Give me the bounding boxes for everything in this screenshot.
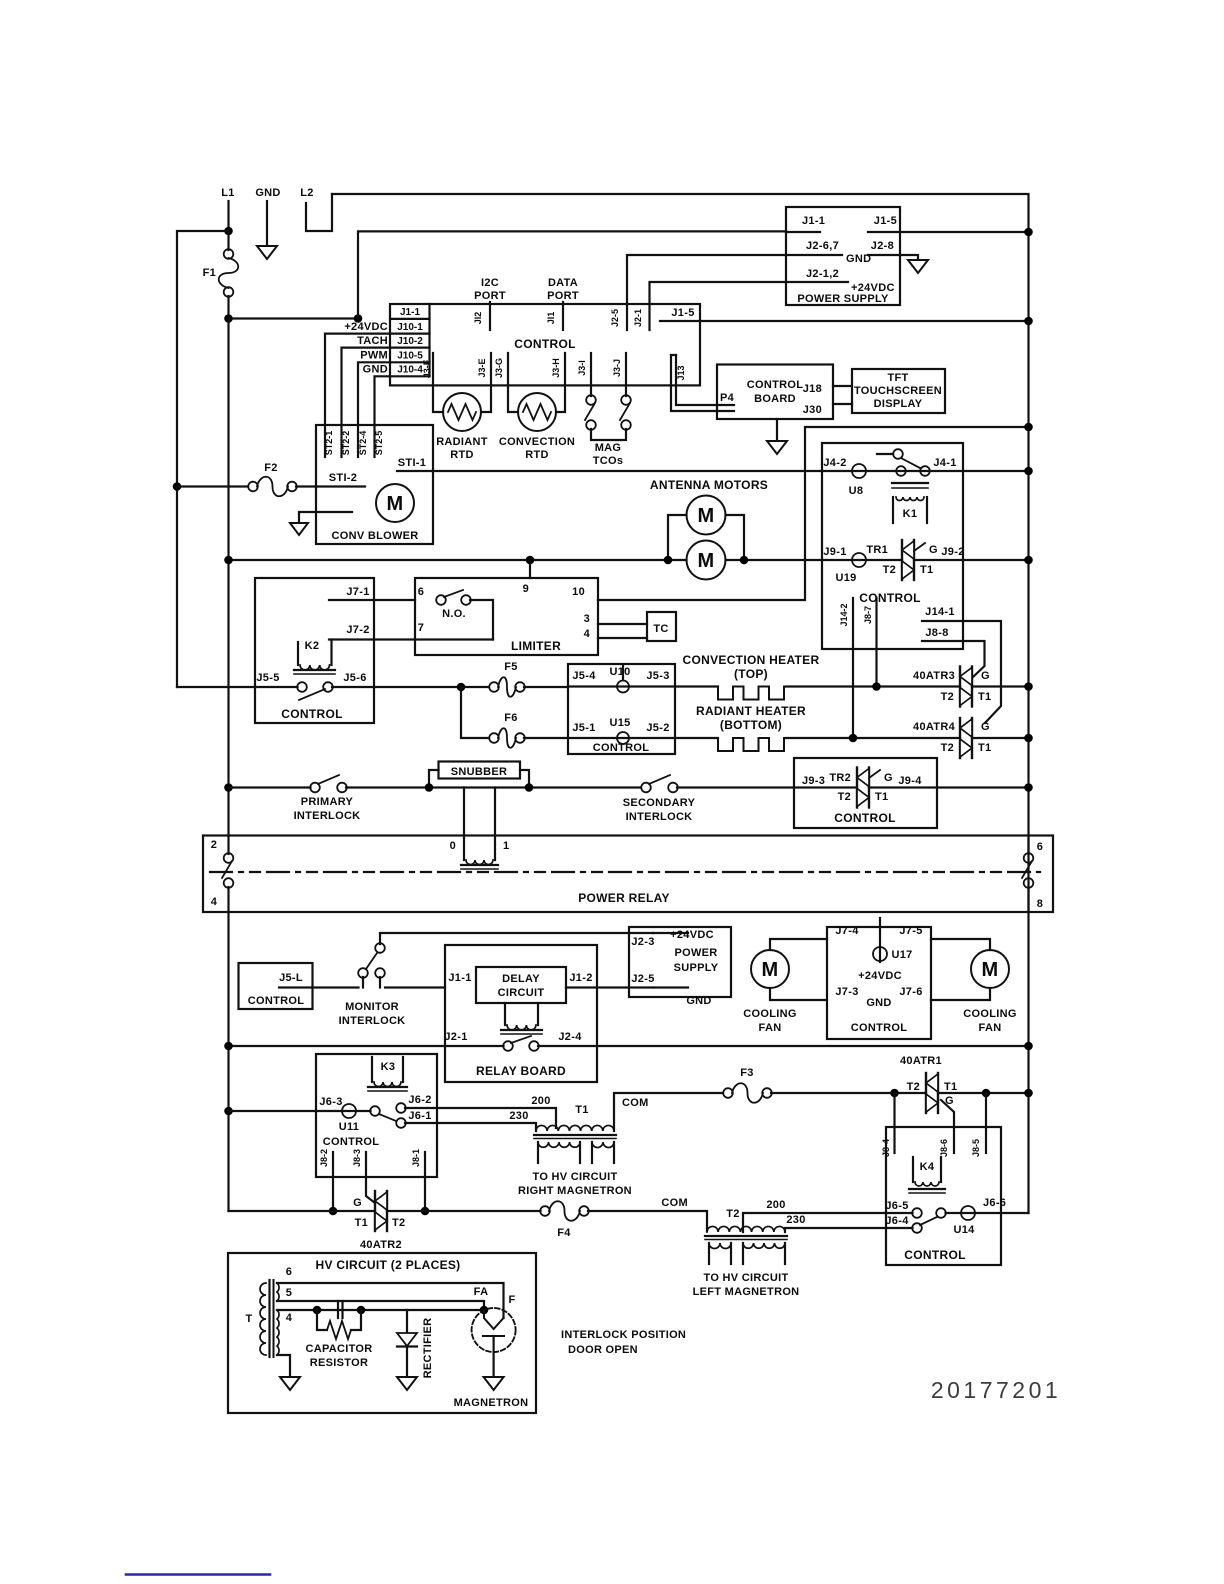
relay coil K4 — [912, 1157, 914, 1182]
control box U17 — [827, 927, 931, 1039]
svg-text:CONTROL: CONTROL — [281, 707, 342, 721]
wire L1 lower vertical — [227, 912, 229, 1211]
svg-text:G: G — [353, 1197, 362, 1209]
wire J6-3 row — [229, 1110, 343, 1112]
junction motors left — [664, 556, 673, 565]
wire J8-3 drop to gate — [366, 1152, 375, 1203]
svg-text:CONTROL: CONTROL — [323, 1136, 379, 1148]
junction row560/pin9 — [526, 556, 535, 565]
svg-text:J1-1: J1-1 — [802, 215, 825, 227]
relay contact K1 switch — [877, 453, 893, 455]
circle U19 — [852, 553, 866, 567]
svg-text:SECONDARY: SECONDARY — [623, 797, 696, 809]
svg-text:J6-4: J6-4 — [885, 1215, 909, 1227]
svg-text:J10-1: J10-1 — [397, 322, 423, 333]
svg-text:CAPACITOR: CAPACITOR — [305, 1343, 372, 1355]
svg-text:10: 10 — [572, 586, 585, 598]
motor antenna 2 — [687, 541, 726, 580]
ground symbol PS1 — [900, 255, 918, 260]
svg-text:GND: GND — [363, 364, 388, 376]
ground symbol rectifier — [397, 1377, 417, 1390]
svg-text:ANTENNA MOTORS: ANTENNA MOTORS — [650, 478, 768, 492]
svg-text:PORT: PORT — [547, 290, 579, 302]
junction J8-5 node — [982, 1089, 991, 1098]
svg-text:INTERLOCK: INTERLOCK — [339, 1015, 406, 1027]
wire fan2 bottom — [931, 988, 990, 1000]
svg-text:T2: T2 — [941, 742, 954, 754]
svg-text:U10: U10 — [609, 666, 630, 678]
svg-text:INTERLOCK: INTERLOCK — [626, 811, 693, 823]
svg-text:MONITOR: MONITOR — [345, 1001, 399, 1013]
wire fan1 top — [770, 939, 827, 950]
svg-text:T1: T1 — [875, 791, 888, 803]
wire antenna bracket right — [726, 515, 745, 560]
svg-text:CONVECTION: CONVECTION — [499, 436, 575, 448]
wire HV 6 to magnetron F — [277, 1283, 504, 1318]
relay board box — [445, 945, 597, 1082]
svg-text:J3-E: J3-E — [477, 358, 487, 377]
wire fan2 top — [931, 939, 990, 950]
svg-text:J8-2: J8-2 — [319, 1149, 329, 1167]
wire J8-5 drop — [985, 1093, 987, 1153]
capacitor HV — [337, 1301, 339, 1318]
wire L2 top rail to right bus — [332, 194, 1029, 1213]
svg-text:J1-1: J1-1 — [400, 307, 420, 318]
relay coil K3 — [371, 1057, 373, 1082]
wire bottom rail mid — [387, 1210, 541, 1212]
svg-text:DATA: DATA — [548, 277, 578, 289]
wire +24VDC feed to control J1-1 — [229, 317, 359, 319]
ground symbol blower — [299, 512, 352, 523]
svg-text:7: 7 — [418, 622, 424, 634]
junction cap right — [357, 1306, 366, 1315]
svg-text:0: 0 — [450, 840, 456, 852]
wire HV 4 row — [277, 1309, 484, 1311]
switch U14 contacts — [886, 1212, 913, 1214]
circle U14 — [946, 1212, 1029, 1214]
wire J8-8 to 40ATR3 gate — [922, 641, 985, 677]
svg-text:I2C: I2C — [481, 277, 499, 289]
junction bus/control J1-5 — [1024, 317, 1033, 326]
svg-text:MAG: MAG — [595, 442, 622, 454]
svg-text:+24VDC: +24VDC — [851, 282, 895, 294]
svg-text:T1: T1 — [944, 1081, 957, 1093]
svg-text:ST2-1: ST2-1 — [324, 431, 334, 456]
junction J8-4 node — [890, 1089, 899, 1098]
svg-text:U11: U11 — [339, 1121, 359, 1133]
svg-text:J5-4: J5-4 — [572, 670, 596, 682]
control box J5-L — [239, 963, 313, 1009]
circle U11 — [342, 1104, 356, 1118]
svg-text:F6: F6 — [504, 712, 517, 724]
TFT touchscreen display box — [852, 369, 945, 413]
svg-text:U14: U14 — [953, 1224, 975, 1236]
svg-text:U8: U8 — [849, 485, 864, 497]
svg-text:P4: P4 — [720, 392, 735, 404]
svg-text:+24VDC: +24VDC — [670, 929, 714, 941]
junction bus/conv row — [1024, 682, 1033, 691]
motor cooling fan right — [971, 950, 1009, 988]
svg-text:J8-8: J8-8 — [925, 627, 948, 639]
svg-text:J2-6,7: J2-6,7 — [806, 240, 839, 252]
svg-text:J2-3: J2-3 — [631, 936, 654, 948]
svg-text:J1-2: J1-2 — [569, 972, 592, 984]
svg-text:M: M — [698, 505, 715, 527]
wire J8-7 drop — [875, 598, 877, 687]
wire J8-2 drop — [332, 1152, 334, 1211]
svg-text:T1: T1 — [978, 691, 991, 703]
svg-text:J8-4: J8-4 — [881, 1139, 891, 1157]
ground symbol control board — [776, 419, 778, 441]
wire J8-1 drop — [424, 1152, 426, 1211]
svg-text:40ATR2: 40ATR2 — [360, 1239, 402, 1251]
wire snubber right leg — [520, 770, 529, 788]
switch relay board contacts — [229, 1045, 504, 1047]
svg-text:CONTROL: CONTROL — [859, 591, 920, 605]
svg-text:CONVECTION HEATER: CONVECTION HEATER — [683, 653, 820, 667]
svg-text:J7-4: J7-4 — [835, 925, 859, 937]
svg-text:F3: F3 — [740, 1067, 753, 1079]
svg-text:FA: FA — [474, 1286, 489, 1298]
svg-text:J30: J30 — [803, 404, 822, 416]
relay coil delay — [504, 1003, 506, 1025]
svg-text:RTD: RTD — [450, 449, 474, 461]
svg-text:INTERLOCK: INTERLOCK — [294, 810, 361, 822]
wire conv row to triac — [786, 685, 960, 687]
svg-text:ST2-4: ST2-4 — [358, 431, 368, 456]
svg-text:CONTROL: CONTROL — [248, 995, 304, 1007]
junction L1/relay-board row — [224, 1042, 233, 1051]
svg-text:RIGHT MAGNETRON: RIGHT MAGNETRON — [518, 1185, 632, 1197]
wire J3-E from radiant RTD — [481, 353, 491, 412]
svg-text:PRIMARY: PRIMARY — [301, 796, 354, 808]
svg-text:K2: K2 — [305, 640, 320, 652]
svg-text:T2: T2 — [907, 1081, 920, 1093]
svg-text:COM: COM — [661, 1197, 688, 1209]
control box K3/U11 — [316, 1054, 437, 1177]
fuse F4 — [540, 1206, 550, 1216]
wire fan1 bottom — [770, 988, 827, 1000]
svg-text:J2-1,2: J2-1,2 — [806, 268, 839, 280]
wire J30 to TFT — [833, 403, 852, 405]
svg-text:SUPPLY: SUPPLY — [674, 962, 719, 974]
fuse F6 — [461, 687, 489, 738]
svg-text:T: T — [245, 1313, 252, 1325]
svg-text:TOUCHSCREEN: TOUCHSCREEN — [854, 385, 942, 397]
svg-text:8: 8 — [1037, 898, 1043, 910]
wire J8-4 drop — [893, 1093, 895, 1153]
wire snubber left leg — [429, 770, 439, 788]
switch monitor interlock — [358, 968, 368, 978]
relay coil K1 — [892, 482, 928, 484]
svg-text:J18: J18 — [803, 383, 822, 395]
svg-text:J5-2: J5-2 — [646, 722, 669, 734]
wire control J1-5 to right bus — [660, 320, 1029, 322]
svg-text:U17: U17 — [891, 949, 912, 961]
wire monitor to PS2 +24VDC — [380, 933, 653, 944]
svg-text:HV CIRCUIT (2 PLACES): HV CIRCUIT (2 PLACES) — [316, 1258, 461, 1272]
svg-text:CONTROL: CONTROL — [904, 1248, 965, 1262]
svg-text:J2-1: J2-1 — [444, 1031, 467, 1043]
svg-text:STI-2: STI-2 — [329, 472, 357, 484]
svg-text:J8-7: J8-7 — [863, 606, 873, 624]
svg-text:J14-1: J14-1 — [925, 606, 955, 618]
svg-text:CONTROL: CONTROL — [851, 1022, 907, 1034]
svg-text:20177201: 20177201 — [931, 1377, 1061, 1403]
wire 40ATR3 to bus — [972, 685, 1029, 687]
svg-text:G: G — [945, 1095, 954, 1107]
svg-text:K4: K4 — [920, 1161, 935, 1173]
wire monitor interlock out — [385, 986, 445, 988]
svg-text:J2-8: J2-8 — [871, 240, 894, 252]
svg-text:TC: TC — [653, 623, 668, 635]
svg-text:RTD: RTD — [525, 449, 549, 461]
wire conv heater row — [568, 685, 718, 687]
svg-text:6: 6 — [1037, 841, 1043, 853]
svg-text:J10-4: J10-4 — [397, 365, 423, 376]
svg-text:F1: F1 — [203, 267, 216, 279]
svg-text:POWER: POWER — [674, 947, 717, 959]
svg-text:U15: U15 — [609, 717, 630, 729]
resistor RADIANT RTD — [443, 393, 481, 431]
svg-text:3: 3 — [584, 613, 590, 625]
svg-text:TCOs: TCOs — [593, 455, 624, 467]
svg-text:J5-1: J5-1 — [572, 722, 595, 734]
switch primary interlock — [229, 786, 311, 788]
junction bus/J9-2 — [1024, 556, 1033, 565]
wire limiter 3 to TC — [598, 623, 647, 625]
junction F5/F6 split — [457, 683, 466, 692]
svg-text:MAGNETRON: MAGNETRON — [454, 1397, 529, 1409]
svg-text:BOARD: BOARD — [754, 393, 796, 405]
junction cap left — [313, 1306, 322, 1315]
wire J4 row left — [822, 470, 1029, 472]
svg-text:U19: U19 — [835, 572, 856, 584]
wire HV 5 to FA — [277, 1301, 484, 1310]
svg-text:F: F — [508, 1294, 515, 1306]
junction J14-2/radiant row — [849, 734, 858, 743]
wire J3-F to radiant RTD — [433, 353, 443, 412]
connector table J1/J10 — [390, 318, 430, 320]
svg-text:2: 2 — [211, 839, 217, 851]
wire PS1 +24VDC to control J2-1 — [650, 282, 787, 330]
wire J3-G to convection RTD — [508, 353, 518, 412]
wire T2 200 tap — [743, 1213, 886, 1232]
junction FA — [480, 1306, 489, 1315]
svg-text:J5-6: J5-6 — [343, 672, 366, 684]
svg-text:J13: J13 — [676, 365, 686, 380]
snubber box — [439, 762, 521, 779]
junction L1/row560 — [224, 556, 233, 565]
thermocouple TC box — [647, 612, 676, 641]
svg-text:(BOTTOM): (BOTTOM) — [720, 718, 782, 732]
wire PS1 GND to control J2-5 — [627, 255, 786, 330]
resistor CONVECTION RTD — [518, 393, 556, 431]
switch secondary interlock — [641, 783, 651, 793]
svg-text:M: M — [698, 550, 715, 572]
svg-text:J3-F: J3-F — [422, 359, 432, 378]
svg-text:ST2-2: ST2-2 — [341, 431, 351, 456]
wire rail to T2 COM — [588, 1211, 707, 1231]
junction F1 out — [224, 314, 233, 323]
connector J13 ribbon — [671, 355, 734, 411]
svg-text:TO HV CIRCUIT: TO HV CIRCUIT — [533, 1171, 618, 1183]
svg-text:TACH: TACH — [357, 335, 388, 347]
wire J14-2 drop — [852, 598, 854, 738]
svg-text:M: M — [387, 493, 404, 515]
delay circuit box — [476, 967, 566, 1003]
svg-text:G: G — [981, 670, 990, 682]
svg-text:GND: GND — [255, 187, 280, 199]
svg-text:5: 5 — [286, 1287, 292, 1299]
circle U17 — [879, 918, 881, 962]
svg-text:J2-5: J2-5 — [610, 309, 620, 327]
svg-text:J6-1: J6-1 — [408, 1110, 431, 1122]
junction L1/interlock row — [224, 783, 233, 792]
svg-text:J10-2: J10-2 — [397, 336, 423, 347]
svg-text:J6-2: J6-2 — [408, 1094, 431, 1106]
svg-text:RECTIFIER: RECTIFIER — [422, 1318, 434, 1379]
svg-text:POWER SUPPLY: POWER SUPPLY — [797, 293, 889, 305]
wire J2-4 to bus — [538, 1045, 1029, 1047]
motor conv blower M — [376, 484, 414, 522]
wire J6-2 to T1 200 — [405, 1108, 556, 1128]
svg-text:J4-1: J4-1 — [933, 457, 956, 469]
svg-text:230: 230 — [786, 1214, 805, 1226]
junction L1/left-bus — [224, 227, 233, 236]
svg-text:T2: T2 — [392, 1217, 405, 1229]
svg-text:J3-J: J3-J — [612, 359, 622, 377]
wire PS1 J1-5 to right bus — [900, 231, 1029, 233]
svg-text:J3-I: J3-I — [577, 360, 587, 376]
svg-text:J1-5: J1-5 — [874, 215, 897, 227]
svg-text:G: G — [981, 721, 990, 733]
svg-text:PWM: PWM — [360, 350, 388, 362]
svg-text:RADIANT: RADIANT — [436, 436, 488, 448]
svg-text:TFT: TFT — [887, 372, 908, 384]
svg-text:F4: F4 — [557, 1227, 571, 1239]
triac 40ATR2 — [374, 1191, 376, 1231]
svg-text:+24VDC: +24VDC — [858, 970, 902, 982]
power relay box — [203, 836, 1053, 913]
svg-text:6: 6 — [418, 586, 424, 598]
svg-text:DOOR OPEN: DOOR OPEN — [568, 1344, 638, 1356]
svg-text:J5-L: J5-L — [279, 972, 303, 984]
svg-text:N.O.: N.O. — [442, 608, 466, 620]
svg-text:L2: L2 — [300, 187, 313, 199]
junction bus/TR2 row — [1024, 783, 1033, 792]
ground symbol HV transformer — [277, 1355, 290, 1377]
svg-text:T2: T2 — [883, 564, 896, 576]
svg-text:J1-1: J1-1 — [448, 972, 471, 984]
junction J8-7/conv row — [872, 682, 881, 691]
svg-text:M: M — [762, 959, 779, 981]
switch U11 contacts — [342, 1110, 371, 1112]
switch N.O. — [436, 595, 446, 605]
junction bus/J1-5 — [1024, 228, 1033, 237]
svg-text:J3-H: J3-H — [551, 358, 561, 378]
svg-text:T1: T1 — [575, 1104, 588, 1116]
relay coil K2 — [297, 642, 299, 665]
power supply PS2 box — [629, 927, 731, 997]
svg-text:J8-5: J8-5 — [971, 1139, 981, 1157]
wire TR2 to bus — [869, 786, 1029, 788]
control box K4/U14 — [886, 1127, 1001, 1265]
junction bus/F3 row — [1024, 1089, 1033, 1098]
wire NO jog to pin7 — [470, 600, 493, 640]
svg-text:M: M — [982, 959, 999, 981]
svg-text:40ATR3: 40ATR3 — [913, 670, 955, 682]
svg-text:J7-3: J7-3 — [835, 986, 858, 998]
svg-text:INTERLOCK POSITION: INTERLOCK POSITION — [561, 1329, 686, 1341]
wire antenna bracket left — [668, 515, 687, 560]
svg-text:CONTROL: CONTROL — [747, 379, 803, 391]
svg-text:200: 200 — [766, 1199, 785, 1211]
svg-text:J6-3: J6-3 — [319, 1096, 342, 1108]
wire J6-1 to T1 230 — [405, 1123, 536, 1131]
svg-text:ST2-5: ST2-5 — [374, 431, 384, 456]
svg-text:J8-3: J8-3 — [352, 1149, 362, 1167]
svg-text:CONTROL: CONTROL — [514, 337, 575, 351]
svg-text:JI1: JI1 — [546, 312, 556, 325]
fuse F3 — [723, 1088, 733, 1098]
junction at x358 — [354, 314, 363, 323]
control module U-main box — [390, 304, 700, 385]
svg-text:40ATR4: 40ATR4 — [913, 721, 956, 733]
wire J9 row — [822, 559, 902, 561]
wire limiter pin9 stub — [529, 560, 531, 578]
svg-text:RESISTOR: RESISTOR — [310, 1357, 368, 1369]
wire 40ATR1 to bus — [938, 1092, 1029, 1094]
wire L1 drop — [227, 201, 229, 230]
svg-text:J1-5: J1-5 — [671, 307, 694, 319]
svg-text:COOLING: COOLING — [963, 1008, 1016, 1020]
svg-text:JI2: JI2 — [473, 312, 483, 325]
limiter box — [415, 578, 598, 655]
svg-text:POWER RELAY: POWER RELAY — [578, 891, 670, 905]
circle U8 — [852, 464, 866, 478]
junction bus y427 — [1024, 423, 1033, 432]
wire STI-1 row — [397, 470, 822, 472]
motor antenna 1 — [687, 496, 726, 535]
junction motors right — [740, 556, 749, 565]
wire limiter 4 to TC — [598, 637, 647, 639]
svg-text:+24VDC: +24VDC — [344, 321, 388, 333]
svg-text:K1: K1 — [903, 508, 918, 520]
wire interlock row mid — [346, 786, 641, 788]
svg-text:J7-1: J7-1 — [346, 586, 369, 598]
control box U10/U15 — [568, 664, 675, 754]
svg-text:PORT: PORT — [474, 290, 506, 302]
svg-text:GND: GND — [866, 997, 891, 1009]
wire left bus — [177, 231, 229, 687]
svg-text:200: 200 — [531, 1095, 550, 1107]
wire radiant heater row — [568, 737, 718, 739]
svg-text:G: G — [884, 772, 893, 784]
svg-text:SNUBBER: SNUBBER — [451, 766, 508, 778]
relay dashed actuator line — [210, 871, 1040, 873]
wire J9-2 to bus — [914, 559, 1029, 561]
wire 40ATR4 to bus — [972, 737, 1029, 739]
svg-text:J7-6: J7-6 — [899, 986, 922, 998]
gate TR2 — [869, 770, 880, 778]
control board box — [717, 365, 833, 420]
junction bus/J2-4 — [1024, 1042, 1033, 1051]
svg-text:J5-5: J5-5 — [256, 672, 279, 684]
svg-text:TR2: TR2 — [829, 772, 851, 784]
svg-text:J9-3: J9-3 — [802, 775, 825, 787]
junction bus/radiant row — [1024, 734, 1033, 743]
